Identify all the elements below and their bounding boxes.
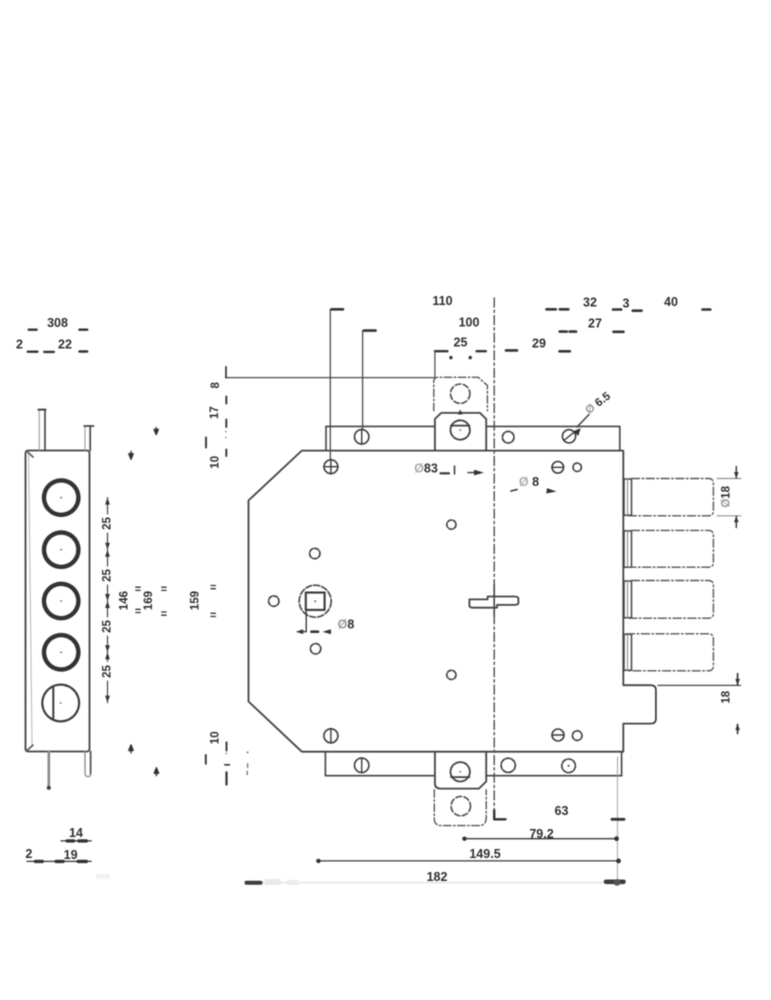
svg-text:8: 8 [210, 382, 222, 389]
lower tab screw [451, 420, 470, 439]
svg-text:2: 2 [25, 847, 32, 861]
svg-text:19: 19 [64, 848, 78, 862]
small up arrow between views (lower a) [129, 745, 133, 753]
faceplate inner left edge (sheet thickness) [29, 454, 32, 744]
latch dim 18 arrows [737, 674, 739, 734]
bottom phantom tab (dash-dot) [434, 790, 486, 826]
deadbolt 4 phantom outline [627, 634, 714, 671]
upper mounting tab (phantom, dash-dot) [434, 377, 488, 411]
svg-text:27: 27 [588, 317, 602, 331]
svg-text:17: 17 [209, 406, 221, 419]
body hole left [269, 596, 279, 606]
svg-text:3: 3 [623, 297, 630, 311]
bottom mounting tab (solid) [435, 752, 486, 789]
dot [225, 753, 227, 755]
svg-text:Ø 8: Ø 8 [519, 475, 539, 489]
screw pair lower: plain [572, 731, 582, 741]
dim 79.2 line [463, 838, 618, 840]
svg-text:Ø83: Ø83 [414, 462, 438, 476]
faint scan smudges [265, 879, 281, 885]
follower dashed circle [299, 585, 331, 617]
screw pair upper: plain [573, 463, 581, 471]
body hole upper middle [310, 548, 320, 558]
faceplate hole circle 3 [44, 584, 78, 618]
bar [225, 772, 227, 784]
svg-text:308: 308 [47, 316, 68, 330]
latch dim extension line [658, 684, 741, 686]
deadbolt 2 stub [624, 531, 632, 567]
deadbolt 1 stub [624, 479, 632, 515]
side tick [205, 755, 207, 764]
dim 149.5 line [317, 860, 621, 862]
dim Ø18 arrows [735, 467, 737, 528]
svg-text:22: 22 [58, 338, 72, 352]
small down arrow between views (upper b) [129, 451, 133, 459]
chain arrowheads [105, 498, 110, 703]
bottom prong thin (screw) [47, 752, 50, 787]
cross screw lower left [324, 729, 338, 743]
dim 2/22 line ticks [28, 351, 38, 353]
side tick [205, 438, 207, 448]
svg-text:Ø18: Ø18 [721, 485, 733, 507]
top strip circle middle [502, 431, 514, 443]
svg-text:10: 10 [210, 731, 222, 744]
cam (key nose) [469, 597, 518, 608]
deadbolt 3 phantom outline [627, 581, 714, 619]
svg-text:149.5: 149.5 [469, 847, 500, 861]
deadbolt 3 stub [624, 581, 632, 618]
dim 182 right arrow [606, 879, 624, 884]
bottom strip screw left [355, 758, 369, 772]
bottom prong right tab [85, 752, 91, 777]
svg-text:25: 25 [102, 569, 114, 582]
tick [225, 450, 227, 457]
bottom tab screw [451, 762, 470, 781]
svg-text:32: 32 [583, 296, 597, 310]
dim 14 line [61, 840, 91, 842]
top strip (edge view of faceplate) [326, 426, 620, 450]
faceplate corner tick top-left [27, 452, 33, 458]
faceplate hole circle 4 [44, 635, 78, 669]
dim 182 left arrow [247, 881, 261, 885]
svg-text:100: 100 [459, 315, 480, 329]
body hole right lower [447, 670, 456, 679]
bottom prong thin tip [47, 786, 51, 790]
svg-text:79.2: 79.2 [529, 827, 553, 841]
tick [225, 397, 227, 404]
svg-text:10: 10 [210, 456, 222, 469]
deadbolt 1 phantom outline [627, 479, 714, 516]
dash [225, 764, 230, 766]
top prong left [38, 410, 45, 451]
deadbolt 4 stub [624, 634, 632, 670]
tick above line end [225, 367, 227, 378]
screw pair upper: slotted [552, 462, 564, 474]
small up arrow between views (lower b) [154, 768, 158, 776]
svg-text:25: 25 [102, 665, 114, 678]
top strip screw right (6.5) [562, 430, 575, 443]
deadbolt 2 phantom outline [627, 530, 714, 567]
dash-dot remnants at body corner [247, 751, 249, 753]
follower square hole [306, 593, 325, 610]
faceplate plate outline [26, 451, 90, 752]
faceplate hole circle 2 [44, 533, 78, 567]
dim Ø18 extension ticks [717, 478, 741, 480]
follower leader left arrow [296, 629, 304, 634]
dim 308 line ticks [29, 329, 37, 331]
chain line segments [107, 498, 109, 703]
screw pair lower: slotted [552, 729, 564, 741]
body hole lower middle [310, 644, 320, 654]
svg-text:Ø8: Ø8 [338, 618, 355, 632]
bottom strip circle right [562, 759, 576, 773]
svg-text:18: 18 [720, 690, 732, 703]
lock body outline [249, 451, 656, 752]
leader line for 110 [329, 310, 331, 460]
svg-text:25: 25 [454, 335, 468, 349]
svg-text:159: 159 [190, 591, 202, 610]
vertical centre axis (dash-dot) [493, 298, 495, 817]
dim 63 right arrow [612, 818, 624, 821]
faceplate hole circle 1 [44, 480, 78, 514]
svg-text:63: 63 [555, 804, 569, 818]
faint dots [225, 431, 227, 433]
tick [226, 742, 228, 750]
dim 63: bent extension at axis [494, 811, 505, 820]
dim 182 line (faint) [256, 882, 612, 884]
follower leader right arrow [323, 629, 332, 634]
follower leader dash [312, 630, 319, 633]
svg-text:14: 14 [69, 826, 83, 840]
lower mounting tab (solid) [435, 413, 486, 451]
bottom strip (edge view of faceplate) [325, 752, 621, 776]
axis solid segment near cam [493, 585, 495, 616]
extension line to tab top [226, 377, 434, 379]
svg-text:146: 146 [119, 591, 131, 610]
cylinder hole flat chord [52, 687, 54, 720]
bottom strip circle middle [501, 758, 515, 772]
small down arrow between views (upper a) [154, 428, 158, 435]
right extension line [617, 757, 619, 884]
faceplate corner tick bottom-left [27, 745, 33, 751]
equality marks around 146/169 [136, 587, 166, 615]
faceplate cylinder hole circle 5 [42, 685, 79, 722]
svg-text:110: 110 [432, 294, 452, 308]
svg-text:40: 40 [664, 295, 678, 309]
dim 2/19 line [27, 860, 91, 862]
svg-text:29: 29 [532, 336, 546, 350]
follower leader line [299, 611, 307, 632]
tick [225, 420, 227, 428]
leader line for 100 [362, 331, 364, 430]
cross screw upper left [324, 460, 338, 474]
svg-text:25: 25 [102, 620, 114, 633]
bottom phantom tab dashed circle [451, 796, 470, 815]
svg-text:182: 182 [427, 870, 448, 884]
top prong right [84, 426, 93, 451]
upper tab dashed circle [451, 384, 470, 403]
svg-text:25: 25 [102, 517, 114, 530]
top strip screw left [355, 430, 369, 444]
equality marks around 159 [211, 586, 215, 617]
small up arrow on tab top edge [458, 410, 463, 415]
svg-text:169: 169 [143, 591, 155, 610]
svg-text:2: 2 [16, 338, 23, 352]
body hole right upper [447, 520, 456, 529]
